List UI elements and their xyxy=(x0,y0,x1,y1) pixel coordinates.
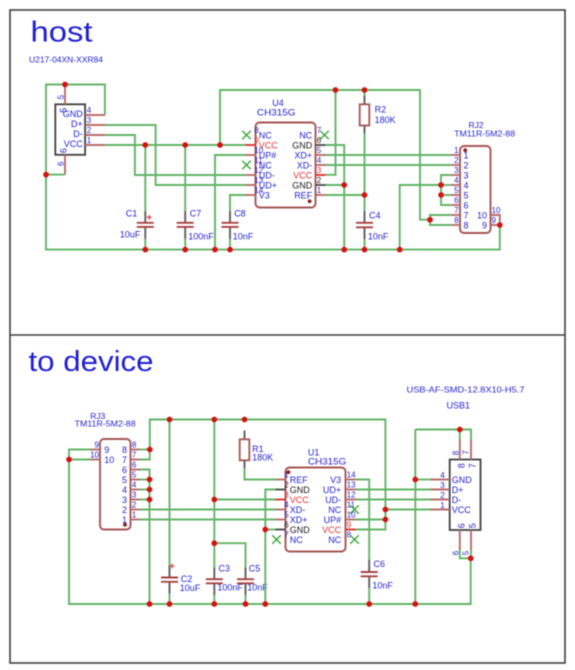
svg-text:8: 8 xyxy=(456,463,466,468)
U1 pin 3 stub xyxy=(276,499,286,501)
RJ3 pin 7 stub xyxy=(131,459,141,461)
svg-text:10: 10 xyxy=(90,451,99,460)
wire C2 top xyxy=(169,420,171,566)
USB1 pin 8 stub xyxy=(459,440,461,460)
RJ3 pin 10 stub xyxy=(91,459,101,461)
capacitor C2 10uF xyxy=(161,564,178,594)
svg-text:9: 9 xyxy=(482,220,487,230)
wire USB1 GND riser down to bus xyxy=(414,430,416,605)
junction rail/R1 xyxy=(242,417,248,423)
wire U4 pin6 GND down to bus xyxy=(326,145,345,250)
RJ2 pin 7 stub xyxy=(451,214,460,216)
svg-text:10nF: 10nF xyxy=(368,232,389,242)
svg-text:NC: NC xyxy=(328,505,341,515)
svg-text:4: 4 xyxy=(464,180,469,190)
svg-text:D-: D- xyxy=(73,129,83,139)
svg-text:NC: NC xyxy=(299,130,312,140)
RJ3 TM11R-5M2-88 body xyxy=(100,439,131,530)
svg-text:4: 4 xyxy=(122,485,127,495)
svg-text:REF: REF xyxy=(294,190,313,200)
svg-text:10uF: 10uF xyxy=(180,583,201,593)
wire RJ2 pin5 to tie xyxy=(441,194,451,196)
RJ3 pin 8 stub xyxy=(131,449,141,451)
junction RJ2 tie/pin5 xyxy=(438,192,444,198)
wire to RJ2 pin7 xyxy=(430,215,451,220)
svg-text:XD+: XD+ xyxy=(290,515,308,525)
U4 CH315G body xyxy=(256,123,316,208)
junction VCC/riser xyxy=(217,142,223,148)
wire C1 bottom to bus xyxy=(144,239,146,250)
RJ3 pin 6 stub xyxy=(131,469,141,471)
USB1 pin 2 stub xyxy=(431,499,450,501)
svg-text:C8: C8 xyxy=(234,208,246,218)
U4 pin 13 stub xyxy=(246,184,256,186)
svg-text:1: 1 xyxy=(132,511,137,520)
junction riser/RJ3 pin8 xyxy=(147,447,153,453)
wire RJ3 pin5 to tie xyxy=(140,479,150,481)
svg-text:6: 6 xyxy=(454,196,459,205)
svg-text:8: 8 xyxy=(122,445,127,455)
wire U4 pin1 REF to R2/C4 node xyxy=(326,194,365,196)
wire RJ3 pin8 to riser xyxy=(140,449,150,451)
capacitor C6 10nF xyxy=(361,560,378,588)
RJ2 TM11R-5M2-88 body xyxy=(460,146,491,233)
RJ2 pin 5 stub xyxy=(451,194,460,196)
wire U1 pin2 GND down to bus xyxy=(265,490,275,605)
svg-text:180K: 180K xyxy=(375,115,396,125)
svg-text:6: 6 xyxy=(58,148,68,153)
junction RJ2 pin7/pin8 tie xyxy=(427,217,433,223)
wire RJ3 pin9 down left rail, bottom bus, up to USB1 5/6 xyxy=(69,450,471,605)
svg-text:C4: C4 xyxy=(369,211,381,221)
capacitor C4 10nF xyxy=(356,211,373,240)
svg-text:4: 4 xyxy=(454,176,459,185)
svg-text:10: 10 xyxy=(477,210,487,220)
junction top rail / U4 pin3 riser xyxy=(333,87,339,93)
wire VCC column to U1 pin3 xyxy=(214,499,275,501)
wire U4 pin3 VCC up to top rail xyxy=(326,90,336,175)
wire RJ2 pin10 down to pin9 xyxy=(499,221,501,225)
svg-text:2: 2 xyxy=(132,501,137,510)
svg-text:7: 7 xyxy=(284,531,289,540)
svg-text:5: 5 xyxy=(284,511,289,520)
wire to RJ2 pin8 xyxy=(430,220,451,225)
svg-text:D+: D+ xyxy=(452,485,464,495)
U4 pin 4 stub xyxy=(316,164,326,166)
svg-text:7: 7 xyxy=(468,463,478,468)
svg-text:2: 2 xyxy=(284,481,289,490)
RJ3 pin 1 marker dot xyxy=(123,523,127,527)
junction shield rail/pin8 xyxy=(457,427,463,433)
svg-text:8: 8 xyxy=(132,441,137,450)
junction top rail / R2 xyxy=(362,87,368,93)
svg-text:V3: V3 xyxy=(259,190,270,200)
U4 pin 2 stub xyxy=(316,184,326,186)
svg-text:XD+: XD+ xyxy=(294,150,312,160)
capacitor C3 100nF xyxy=(206,567,223,595)
svg-text:NC: NC xyxy=(328,535,341,545)
U4 pin 11 no-connect X xyxy=(242,161,251,170)
U1 CH315G body xyxy=(286,468,346,552)
svg-text:3: 3 xyxy=(464,170,469,180)
svg-text:USB1: USB1 xyxy=(447,400,471,410)
J-host pin 4 stub xyxy=(85,114,105,116)
svg-text:CH315G: CH315G xyxy=(257,108,296,118)
svg-text:C1: C1 xyxy=(126,208,138,218)
capacitor C1 10uF xyxy=(137,211,154,239)
svg-text:7: 7 xyxy=(132,451,137,460)
U4 pin 1 marker dot xyxy=(308,199,312,203)
svg-text:UP#: UP# xyxy=(324,515,342,525)
U4 pin 6 stub xyxy=(316,144,326,146)
svg-text:10: 10 xyxy=(347,511,356,520)
U4 pin 1 stub xyxy=(316,194,326,196)
wire top rail to R2 top xyxy=(364,90,366,96)
svg-text:9: 9 xyxy=(104,445,109,455)
svg-text:5: 5 xyxy=(57,94,66,99)
U1 pin 9 stub xyxy=(346,529,356,531)
wire XD- net: RJ3 pin2 to U1 pin4 xyxy=(140,509,276,511)
svg-text:6: 6 xyxy=(57,161,66,166)
junction bus/GND riser xyxy=(341,247,347,253)
svg-text:D-: D- xyxy=(452,495,462,505)
svg-text:2: 2 xyxy=(122,505,127,515)
junction left rail/pin10 xyxy=(66,457,72,463)
svg-text:3: 3 xyxy=(132,491,137,500)
junction bus/C8 xyxy=(227,247,233,253)
svg-text:GND: GND xyxy=(292,180,313,190)
U1 pin 2 stub xyxy=(276,489,286,491)
J-host pin 1 stub xyxy=(85,144,105,146)
wire USB1 pin8 up to shield rail xyxy=(459,430,461,440)
svg-text:6: 6 xyxy=(122,465,127,475)
wire USB1 pin5 down to tie xyxy=(470,550,472,558)
junction RJ3 tie/pin4 xyxy=(147,487,153,493)
U4 pin 3 stub xyxy=(316,174,326,176)
svg-text:180K: 180K xyxy=(252,453,273,463)
U1 pin 14 stub xyxy=(346,479,356,481)
wire C4 bottom to bus xyxy=(364,239,366,249)
svg-text:5: 5 xyxy=(454,186,459,195)
capacitor C7 100nF xyxy=(177,211,194,239)
RJ2 pin 1 stub xyxy=(451,154,460,156)
svg-text:VCC: VCC xyxy=(293,170,313,180)
svg-text:D+: D+ xyxy=(71,119,83,129)
USB1 pin 7 stub xyxy=(470,440,472,460)
wire segment over J-host pin5 xyxy=(65,84,85,86)
svg-text:1: 1 xyxy=(87,136,92,145)
junction VCC/C7 xyxy=(182,142,188,148)
capacitor C5 10nF xyxy=(237,567,254,595)
svg-text:XD-: XD- xyxy=(290,505,306,515)
U4 pin 12 stub xyxy=(246,174,256,176)
J-host pin 5 stub xyxy=(64,85,66,105)
svg-text:9: 9 xyxy=(347,521,352,530)
junction bus/C5 xyxy=(243,601,249,607)
U1 pin 11 no-connect X xyxy=(350,505,359,514)
wire C7 bottom to bus xyxy=(184,239,186,250)
junction VCC column/C3-C5 tie xyxy=(211,540,217,546)
svg-text:10uF: 10uF xyxy=(120,229,141,239)
junction bus/USB1 GND riser xyxy=(412,601,418,607)
wire R1 bottom to U1 REF pin1 xyxy=(245,468,276,479)
junction bus/RJ2 tie riser xyxy=(397,247,403,253)
U1 pin 1 marker dot xyxy=(287,470,291,474)
USB1 pin 1 stub xyxy=(431,509,450,511)
svg-text:100nF: 100nF xyxy=(188,232,214,242)
svg-text:5: 5 xyxy=(461,550,470,555)
U4 pin 9 stub xyxy=(246,144,256,146)
svg-text:GND: GND xyxy=(452,475,473,485)
wire U1 pin6 GND to GND riser xyxy=(265,529,275,531)
RJ3 pin 3 stub xyxy=(131,499,141,501)
svg-text:4: 4 xyxy=(284,501,289,510)
panel divider line xyxy=(10,334,565,336)
wire RJ3 pin10 to left rail xyxy=(69,459,91,461)
wire RJ2 tie down to bus xyxy=(400,185,441,250)
svg-text:8: 8 xyxy=(464,220,469,230)
junction REF/R2/C4 xyxy=(362,192,368,198)
junction RJ2 tie/pin4 xyxy=(438,182,444,188)
junction rail/C2 xyxy=(167,417,173,423)
svg-text:5: 5 xyxy=(317,146,322,155)
junction GND riser/pin2 xyxy=(341,182,347,188)
wire XD+ net: RJ3 pin1 to U1 pin5 xyxy=(140,519,276,521)
wire D+ net: U1 UD+ to USB1 pin3 xyxy=(356,489,431,491)
capacitor C8 10nF xyxy=(222,211,239,239)
svg-text:V3: V3 xyxy=(330,475,341,485)
wire U4 UP# pin10 down to bus xyxy=(215,155,246,250)
U1 pin 7 no-connect X xyxy=(272,535,281,544)
svg-text:6: 6 xyxy=(284,521,289,530)
svg-text:6: 6 xyxy=(464,200,469,210)
junction bus/C6 xyxy=(366,601,372,607)
junction bus/UP# xyxy=(212,247,218,253)
wire USB1 pin6 down to 5/6 tie xyxy=(460,550,471,558)
RJ3 pin 1 stub xyxy=(131,519,141,521)
junction bus/C2 xyxy=(167,601,173,607)
svg-text:6: 6 xyxy=(456,523,466,528)
RJ2 pin 3 stub xyxy=(451,174,460,176)
wire RJ3 pins 3-6 tie down to bus xyxy=(140,470,150,605)
wire RJ2 pins 3-6 tie xyxy=(441,175,451,205)
junction bus/C1 xyxy=(142,247,148,253)
junction rail/VCC column xyxy=(211,417,217,423)
RJ2 pin 9 stub xyxy=(491,224,500,226)
svg-text:4: 4 xyxy=(440,471,445,480)
wire U4 pin2 GND to GND riser xyxy=(326,184,345,186)
svg-text:4: 4 xyxy=(87,106,92,115)
junction RJ3 tie/pin3 xyxy=(147,497,153,503)
svg-text:VCC: VCC xyxy=(64,139,84,149)
J-host pin 6 stub xyxy=(64,155,66,175)
RJ2 pin 2 stub xyxy=(451,164,460,166)
RJ3 pin 2 stub xyxy=(131,509,141,511)
svg-text:7: 7 xyxy=(461,450,470,455)
U1 pin 5 stub xyxy=(276,519,286,521)
U4 pin 10 stub xyxy=(246,154,256,156)
svg-text:7: 7 xyxy=(464,210,469,220)
U4 pin 7 no-connect X xyxy=(320,131,329,140)
svg-text:TM11R-5M2-88: TM11R-5M2-88 xyxy=(75,419,136,429)
svg-text:14: 14 xyxy=(347,471,356,480)
svg-text:5: 5 xyxy=(464,190,469,200)
wire VCC riser and top rail to RJ2 7/8 xyxy=(220,90,430,220)
svg-text:3: 3 xyxy=(317,166,322,175)
junction RJ3 tie/pin5 xyxy=(147,477,153,483)
svg-text:2: 2 xyxy=(317,176,322,185)
svg-text:GND: GND xyxy=(292,140,313,150)
connector J-host USB body xyxy=(55,104,85,155)
svg-text:USB-AF-SMD-12.8X10-H5.7: USB-AF-SMD-12.8X10-H5.7 xyxy=(407,384,525,394)
RJ3 pin 4 stub xyxy=(131,489,141,491)
svg-text:GND: GND xyxy=(290,485,311,495)
svg-text:2: 2 xyxy=(440,491,445,500)
svg-text:1: 1 xyxy=(317,186,322,195)
RJ3 pin 5 stub xyxy=(131,479,141,481)
wire GND shell net: J-host pin4 up, across top, left side down, bottom bus to RJ2 9/10 xyxy=(46,85,500,250)
wire C2 bottom to bus xyxy=(169,594,171,604)
wire VCC column down to C3/C5 tie xyxy=(214,420,245,568)
junction bus/RJ3 tie xyxy=(147,601,153,607)
USB1 pin 5 stub xyxy=(470,530,472,550)
svg-text:C6: C6 xyxy=(374,559,386,569)
U1 pin 10 stub xyxy=(346,519,356,521)
svg-text:1: 1 xyxy=(440,501,445,510)
USB1 connector body xyxy=(450,460,481,531)
wire VCC riser to U1 UP# pin10 xyxy=(356,519,386,521)
resistor R2 180K xyxy=(360,96,370,134)
RJ2 pin 8 stub xyxy=(451,224,460,226)
wire REF node down to C4 xyxy=(364,195,366,211)
wire USB1 shield rail to pin7 xyxy=(415,430,471,440)
junction GND riser/pin6 xyxy=(262,527,268,533)
svg-text:REF: REF xyxy=(290,475,309,485)
wire RJ2 pin4 to tie xyxy=(441,184,451,186)
U1 pin 4 stub xyxy=(276,509,286,511)
svg-text:C7: C7 xyxy=(190,208,202,218)
svg-text:5: 5 xyxy=(58,108,68,113)
wire R2 bottom to REF node xyxy=(364,134,366,196)
svg-text:3: 3 xyxy=(122,495,127,505)
svg-text:10nF: 10nF xyxy=(372,581,393,591)
svg-text:3: 3 xyxy=(87,116,92,125)
svg-text:10nF: 10nF xyxy=(233,232,254,242)
J-host pin 3 stub xyxy=(85,124,105,126)
svg-text:UD+: UD+ xyxy=(323,485,341,495)
svg-text:2: 2 xyxy=(464,160,469,170)
wire C3 top xyxy=(213,543,215,567)
svg-text:VCC: VCC xyxy=(290,495,310,505)
RJ2 pin 1 marker dot xyxy=(463,148,467,152)
svg-text:to device: to device xyxy=(29,346,154,378)
wire VCC rail: RJ3 pin7 up, across, down to U1 pin9 xyxy=(140,420,385,530)
svg-text:U217-04XN-XXR84: U217-04XN-XXR84 xyxy=(29,55,103,65)
U1 pin 6 stub xyxy=(276,529,286,531)
U4 pin 14 stub xyxy=(246,194,256,196)
RJ3 pin 9 stub xyxy=(91,449,101,451)
wire C6 bottom to bus xyxy=(368,588,370,604)
junction RJ2 pin9/pin10 xyxy=(497,222,503,228)
svg-text:5: 5 xyxy=(122,475,127,485)
svg-text:TM11R-5M2-88: TM11R-5M2-88 xyxy=(454,129,515,139)
wire C8 bottom to bus xyxy=(229,239,231,250)
junction VCC riser/UP# xyxy=(383,517,389,523)
wire RJ3 pin4 to tie xyxy=(140,489,150,491)
svg-text:5: 5 xyxy=(468,523,478,528)
RJ2 pin 4 stub xyxy=(451,184,460,186)
svg-text:2: 2 xyxy=(454,156,459,165)
RJ2 pin 10 stub bent xyxy=(491,215,500,222)
junction bus/C3 xyxy=(211,601,217,607)
svg-text:GND: GND xyxy=(290,525,311,535)
svg-text:13: 13 xyxy=(347,481,356,490)
wire GND riser to USB1 pin4 xyxy=(415,479,430,481)
U1 pin 13 stub xyxy=(346,489,356,491)
wire U4 V3 pin14 to C8 top xyxy=(230,195,246,211)
U1 pin 1 stub xyxy=(276,479,286,481)
wire XD- net: U4 pin4 to RJ2 pin2 xyxy=(326,164,451,166)
svg-text:7: 7 xyxy=(122,455,127,465)
junction USB1 pin5/pin6 tie xyxy=(468,555,474,561)
wire J-host pin6 to left rail xyxy=(46,174,65,176)
svg-text:8: 8 xyxy=(454,216,459,225)
svg-text:3: 3 xyxy=(440,481,445,490)
RJ2 pin 6 stub xyxy=(451,204,460,206)
svg-text:3: 3 xyxy=(284,491,289,500)
svg-text:NC: NC xyxy=(259,130,272,140)
wire RJ3 pin3 to tie xyxy=(140,499,150,501)
svg-text:9: 9 xyxy=(492,216,497,225)
wire C1 top xyxy=(144,145,146,211)
svg-text:8: 8 xyxy=(451,450,460,455)
USB1 pin 4 stub xyxy=(431,479,450,481)
svg-text:6: 6 xyxy=(317,136,322,145)
svg-text:5: 5 xyxy=(132,471,137,480)
svg-text:4: 4 xyxy=(132,481,137,490)
U1 pin 12 stub xyxy=(346,499,356,501)
U4 pin 8 no-connect X xyxy=(242,131,251,140)
junction bus/U1 GND riser xyxy=(262,601,268,607)
svg-text:XD-: XD- xyxy=(297,160,313,170)
svg-text:9: 9 xyxy=(95,441,100,450)
junction VCC riser/USB1 VCC xyxy=(383,507,389,513)
svg-text:3: 3 xyxy=(454,166,459,175)
wire VCC row: J-host pin1 to U4 pin9 xyxy=(105,144,246,146)
junction VCC/C1 xyxy=(142,142,148,148)
svg-text:VCC: VCC xyxy=(452,505,472,515)
junction bus/C7 xyxy=(182,247,188,253)
wire C7 top xyxy=(184,145,186,211)
svg-text:6: 6 xyxy=(132,461,137,470)
svg-text:10: 10 xyxy=(492,206,501,215)
svg-text:UD-: UD- xyxy=(325,495,341,505)
svg-text:10: 10 xyxy=(104,455,114,465)
wire VCC to USB1 pin1 xyxy=(385,509,430,511)
svg-text:CH315G: CH315G xyxy=(308,456,347,466)
svg-text:2: 2 xyxy=(87,126,92,135)
wire D- net: J-host pin2 to U4 UD- xyxy=(105,135,246,175)
wire R1 top joint xyxy=(244,430,246,432)
svg-text:1: 1 xyxy=(454,146,459,155)
svg-text:C3: C3 xyxy=(218,564,230,574)
wire U1 V3 pin14 to C6 top xyxy=(356,480,370,561)
svg-text:NC: NC xyxy=(290,535,303,545)
junction VCC column/U1 pin3 xyxy=(211,497,217,503)
svg-text:7: 7 xyxy=(454,206,459,215)
svg-text:host: host xyxy=(31,17,93,49)
wire C5 bottom to bus xyxy=(245,595,247,604)
